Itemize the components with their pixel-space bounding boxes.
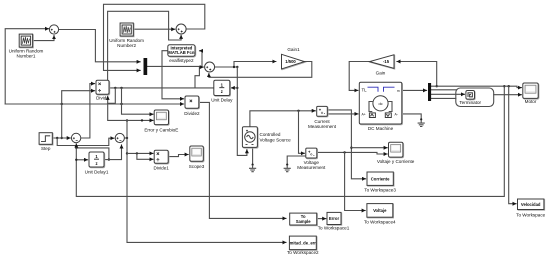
wire branch down to Voltaje workspace block [345,152,366,210]
wire To Sample output to Error block [317,218,326,220]
wire speed feedback long line from demux to sum4 bottom [76,85,505,196]
svg-text:z: z [95,161,97,166]
svg-text:Gain1: Gain1 [287,47,300,52]
svg-text:To Workspace1: To Workspace1 [318,226,350,231]
wire Step branch to sum5 left [57,138,114,146]
block Corriente (To Workspace3) [367,172,394,186]
ground under Voltage Measurement [284,164,291,172]
wire demux output4 stub into loop [431,97,456,99]
svg-text:Voltage Source: Voltage Source [260,137,292,142]
svg-text:MATLAB Fcn: MATLAB Fcn [168,50,194,55]
wire loop exit to Motor scope in2 [494,94,522,96]
wire vertical x127 down to To Workspace2 block [126,119,286,242]
svg-text:Error y CambioE: Error y CambioE [144,127,178,132]
wire branch to Divide1 input1 [127,152,153,154]
block Interpreted MATLAB Fcn (evalfistype2) [168,45,196,57]
svg-text:-15: -15 [383,59,390,64]
wire Unit Delay input from right [231,87,237,89]
scope Voltaje y Corriente [389,142,404,158]
block Step [39,133,53,145]
wire junction to UD1 input [75,159,87,161]
block Current Measurement [317,106,328,117]
wire CM current output to scope in1 and Corriente [327,110,365,179]
wire branch x121.5 down to Error scope in1 [122,88,154,114]
svg-text:Corriente: Corriente [371,176,390,181]
wire branch down to Voltage Measurement input1 [299,111,305,154]
block Divide [96,80,110,95]
svg-text:mitad_de_err: mitad_de_err [290,241,317,246]
wire speed feedback branch y147.9 joining UD1 out [75,147,110,161]
wire sum3 output to Gain1 input [215,62,276,69]
svg-text:Step: Step [41,146,51,151]
wire CVS minus to ground1 [252,148,254,164]
wire sum3 out net down to Unit Delay input and CVS control [236,67,247,155]
svg-text:dc: dc [378,101,382,106]
wire speed branch down to Velocidad [509,86,516,204]
svg-text:Number1: Number1 [17,54,36,59]
svg-text:DC Machine: DC Machine [368,126,394,131]
svg-text:Measurement: Measurement [297,165,326,170]
block mitad_de_err (To Workspace2) [289,236,317,250]
demux [428,83,431,101]
svg-text:Scope3: Scope3 [189,164,205,169]
svg-text:To Workspace: To Workspace [516,213,545,218]
sum junction sum1 [49,25,58,34]
svg-text:Divide2: Divide2 [184,111,200,116]
svg-text:Error: Error [329,216,340,221]
svg-text:1/500: 1/500 [285,59,296,64]
svg-text:z: z [221,89,223,94]
svg-text:evalfistype2: evalfistype2 [169,58,194,63]
wire sum4 output up to Divide input1 [81,84,95,138]
svg-text:Divide1: Divide1 [154,166,170,171]
wire DC machine m output to demux [402,89,427,91]
block Uniform Random Number1 [19,34,33,48]
wire scope in2 net from under Divide [108,96,153,121]
wire CM series output to DC machine A+ [327,113,358,115]
block Gain1 (1/500) [282,54,306,69]
wire loop capsule around Terminator [456,88,494,107]
block Unit Delay1 [89,152,105,168]
block Controlled Voltage Source [242,127,258,148]
svg-text:Gain: Gain [376,71,386,76]
wire demux output3 to Terminator [431,93,465,95]
block DC Machine [359,82,402,124]
svg-text:Unit Delay: Unit Delay [211,98,233,103]
scope Error y CambioE [154,110,169,125]
wire reference branch x61.7 up to Divide input2 [61,91,95,140]
wire sum2 output top loop to mux input2 [104,4,205,70]
svg-text:Measurement: Measurement [308,124,337,129]
wire VM voltage output to scope in2 [317,151,387,154]
block Voltage Measurement [306,148,318,159]
block Error (To Workspace1) [327,212,342,225]
wire demux output2 stub [431,89,457,91]
wire Step output to sum4 left [52,137,70,139]
svg-text:To Workspace3: To Workspace3 [364,188,396,193]
block To Sample [290,213,318,226]
block Gain (-15, flipped) [370,55,395,69]
block Voltaje (To Workspace4) [367,204,394,218]
wire CVS top to Current Measurement input [250,110,315,127]
block Unit Delay (flipped) [214,80,231,96]
wire branch to Divide1 input2 [137,153,153,159]
wire long y88 line Divide right to Unit Delay output [110,87,214,89]
wire branch x115 down-left stub [108,88,116,103]
block Divide2 [185,96,200,109]
wire sum1 output to mux input1 [59,30,141,62]
wire URN2 output to sum2 left [133,28,175,30]
svg-text:Voltaje: Voltaje [373,208,387,213]
svg-text:A-: A- [395,112,398,116]
svg-text:Voltaje y Corriente: Voltaje y Corriente [377,159,415,164]
svg-text:TL: TL [362,88,368,93]
block Uniform Random Number2 [120,23,134,37]
sum junction sum3 [205,62,215,72]
mux [144,58,148,75]
wire DC machine A- to ground3 [402,114,421,118]
svg-text:Velocidad: Velocidad [521,202,541,207]
block Velocidad (To Workspace) [518,199,545,210]
wire reference net y104 to Divide2 input2 [5,103,183,105]
svg-text:Number2: Number2 [117,43,136,48]
wire URN1 output to sum1 bottom [33,36,54,41]
block Terminator [466,91,475,100]
wire Divide1 output to Scope3 [168,155,188,157]
wire net y11 from Divide top to sum2 bottom input [108,11,182,80]
wire sum5 output to vertical x127 [124,137,128,139]
wire Gain output to DC machine TL input [349,62,369,91]
wire IM fcn output to Divide2 input1 [162,51,184,99]
svg-text:Sample: Sample [296,219,312,224]
wire Voltage Measurement input2 to ground2 [287,156,306,164]
ground under CVS [249,164,256,172]
wire sum3 left approach [195,67,203,88]
wire mux output to IM fcn input [147,51,202,67]
svg-text:A+: A+ [362,112,366,116]
svg-text:Motor: Motor [525,99,537,104]
svg-text:Terminator: Terminator [459,100,481,105]
svg-text:To Workspace4: To Workspace4 [364,220,396,225]
block Divide1 [154,150,169,164]
wire Gain1 output loop to sum3 bottom [209,62,312,78]
svg-text:Controlled: Controlled [260,132,281,137]
svg-text:m: m [397,89,400,93]
wire UD1 output to sum5 bottom [104,145,121,160]
wire demux output1 to Motor scope in1 [431,85,521,88]
wire Divide2 output down to To Sample [200,102,286,218]
svg-text:To Workspace2: To Workspace2 [287,250,319,255]
scope Scope3 [190,146,204,162]
ground at DC machine A- [418,118,425,126]
wire branch to scope Voltaje y Corriente in1 [351,147,387,149]
sum junction sum2 [176,24,186,34]
svg-text:Divide: Divide [96,96,109,101]
svg-text:Unit Delay1: Unit Delay1 [85,169,109,174]
wire sum1 left input from reference net [5,29,48,104]
wire demux line1 speed branch up to Gain input [397,62,438,88]
sum junction sum4 [71,133,80,142]
scope Motor [523,83,539,99]
sum junction sum5 [115,133,124,142]
